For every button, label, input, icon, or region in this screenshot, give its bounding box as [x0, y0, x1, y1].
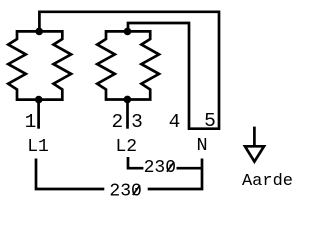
dimension line L1 to 230 — [36, 159, 104, 190]
svg-text:5: 5 — [204, 110, 216, 132]
earth symbol arrowhead — [245, 146, 264, 161]
svg-text:2: 2 — [111, 111, 123, 133]
wire terminal 1 lead — [37, 100, 40, 129]
junction dot pair2 bottom — [124, 96, 132, 104]
dimension line 230 to N (bottom) — [148, 159, 202, 190]
heating element R2b (right resistor of right pair) — [127, 31, 159, 99]
wire terminal 2/3 lead — [126, 100, 129, 129]
svg-text:230: 230 — [109, 182, 141, 202]
svg-text:1: 1 — [25, 111, 37, 133]
earth symbol stem — [253, 127, 256, 147]
heating element R1b (right resistor of left pair) — [39, 31, 71, 99]
junction dot pair2 top — [124, 28, 132, 36]
slash of zero in upper 230 label — [167, 162, 174, 172]
svg-text:3: 3 — [131, 111, 143, 133]
junction dot pair1 bottom — [35, 96, 43, 104]
junction dot pair1 top — [35, 28, 43, 36]
svg-text:4: 4 — [169, 111, 181, 133]
heating element R2a (left resistor of right pair) — [97, 31, 128, 99]
dimension line L2 to 230 — [128, 157, 143, 168]
svg-text:Aarde: Aarde — [242, 172, 293, 191]
wire top loop: pair1 top to terminal 5, link box, pair2 top to terminal 4 — [39, 12, 219, 129]
svg-text:N: N — [196, 135, 207, 156]
svg-text:L1: L1 — [27, 137, 49, 157]
slash of zero in lower 230 label — [133, 185, 140, 195]
svg-text:230: 230 — [144, 158, 176, 178]
svg-text:L2: L2 — [115, 137, 137, 157]
heating element R1a (left resistor of left pair) — [8, 31, 39, 99]
dimension line 230 to N (upper) — [177, 167, 203, 170]
